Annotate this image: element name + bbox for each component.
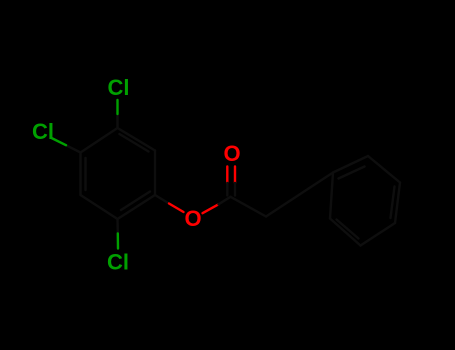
double bond C7=O, black halves (226, 183, 228, 196)
wire ring edge V6-V1 (81, 128, 118, 153)
bond C4-Cl (left), green half (52, 138, 67, 145)
phenyl ring (right) (330, 156, 400, 246)
wire ring edge V4-V5 (81, 195, 118, 219)
benzene ring (trichlorophenyl) (81, 128, 156, 219)
wire ring edge V2-V3 (154, 151, 156, 196)
wire ring edge V1-V2 (118, 128, 156, 151)
wire ring edge P3-P4 (395, 183, 400, 224)
aromatic inner line P5-P6 (337, 220, 359, 239)
wire ring edge V5-V6 (79, 153, 81, 196)
wire ring edge P4-P5 (361, 223, 396, 246)
bond C2-Cl (bottom), black half (116, 219, 119, 234)
wire ring edge P5-P6 (330, 219, 361, 246)
bond C4-Cl (left), black half (66, 145, 81, 152)
aromatic inner line V1-V2 (120, 134, 149, 152)
bond C1-O(ester), black half (155, 195, 169, 204)
bond O(ester)-C7 carbonyl, red half (203, 204, 219, 213)
aromatic inner line P1-P2 (339, 167, 365, 179)
wire ring edge P1-P2 (333, 156, 368, 173)
bond C1-O(ester), red half (169, 204, 184, 213)
svg-text:Cl: Cl (32, 119, 54, 144)
bond C5-Cl (top), green half (116, 100, 118, 114)
double bond C7=O, red halves (two parallel lines) (226, 167, 228, 184)
wire chain C8-C9-ipso (straight) (266, 173, 333, 217)
svg-text:Cl: Cl (108, 75, 130, 100)
bond C2-Cl (bottom), green half (117, 234, 120, 249)
wire ring edge P6-P1 (330, 173, 333, 219)
aromatic inner line V5-V6 (84, 158, 86, 190)
svg-text:O: O (185, 206, 202, 231)
svg-text:O: O (224, 141, 241, 166)
svg-text:Cl: Cl (107, 250, 129, 275)
wire chain C7-C8 (231, 197, 267, 217)
bond C5-Cl (top), black half (116, 114, 118, 128)
wire ring edge V3-V4 (118, 195, 156, 219)
wire ring edge P2-P3 (368, 156, 400, 183)
aromatic inner line V3-V4 (121, 192, 150, 211)
aromatic inner line P3-P4 (391, 187, 395, 219)
bond O(ester)-C7 carbonyl, black half (219, 197, 231, 205)
